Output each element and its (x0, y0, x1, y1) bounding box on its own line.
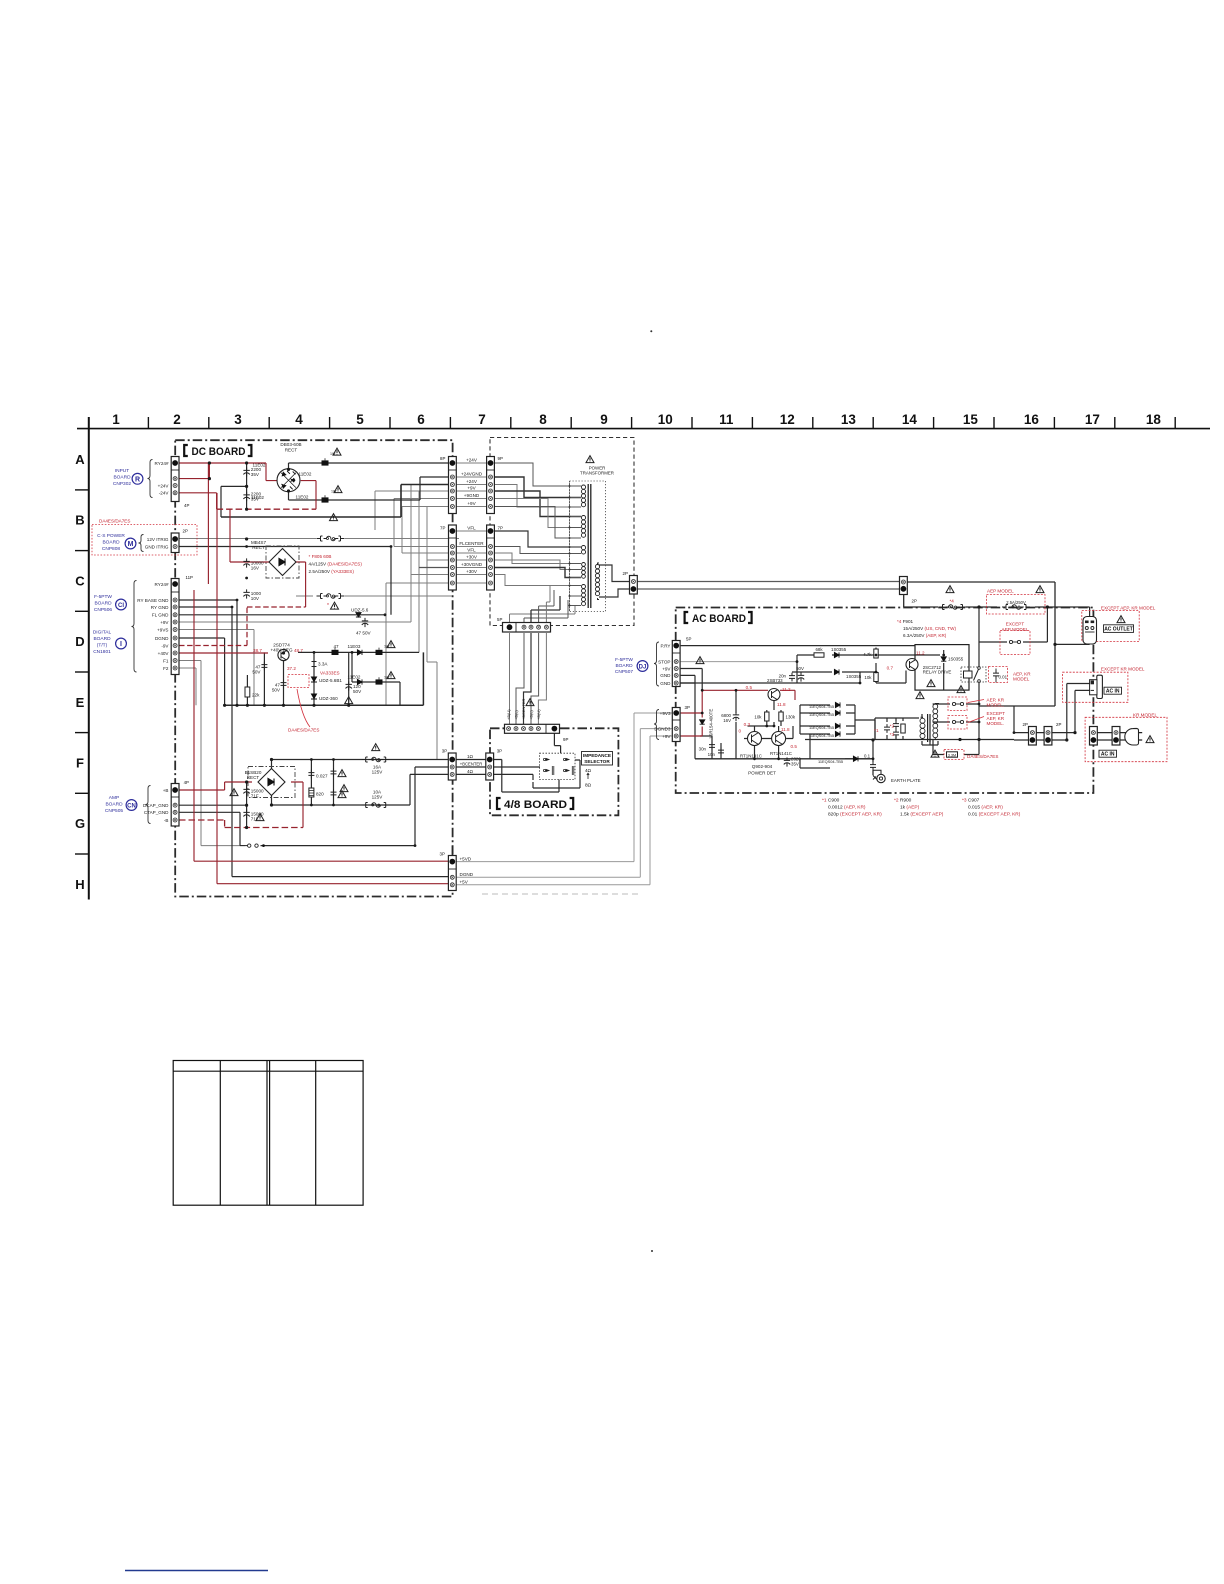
wire 5P to 4/8 drop 4 (531, 633, 539, 725)
warning triangle powerdet (696, 657, 704, 664)
blue DIGITAL BOARD label (93, 630, 112, 656)
warning triangle B center (330, 514, 338, 521)
except AEP model red box (1000, 631, 1030, 655)
wire +9GND stub (394, 499, 449, 547)
red dotted box 3.3M (944, 750, 964, 760)
wire 4/8 right row3 (494, 774, 533, 780)
svg-text:DA4ES/DA7ES: DA4ES/DA7ES (288, 728, 319, 733)
transformer dotted tap line (569, 481, 571, 611)
wire Q902 links (744, 701, 793, 759)
AC board title (685, 612, 752, 625)
svg-text:7P: 7P (440, 526, 445, 531)
svg-text:CI: CI (118, 603, 124, 609)
wire 5P riser 1 (510, 606, 576, 632)
circled DJ (637, 661, 648, 672)
svg-text:3.3A: 3.3A (318, 662, 328, 667)
svg-text:8: 8 (539, 412, 547, 427)
wire staircase +30V (494, 560, 581, 570)
svg-text:INPUT: INPUT (115, 468, 129, 474)
svg-text:10k: 10k (754, 715, 762, 720)
svg-text:DA4ES/DA7ES: DA4ES/DA7ES (967, 754, 998, 759)
wire 5P to 4/8 drop 5 (538, 633, 546, 725)
wire riser x427 (427, 507, 437, 760)
capacitor 15000 b (243, 809, 249, 818)
connector 2P a (1029, 727, 1037, 746)
svg-text:FLCENTER: FLCENTER (459, 541, 484, 546)
brace AC 3P (654, 710, 659, 740)
svg-text:F2: F2 (163, 666, 169, 671)
svg-text:4A/125V (DA4ES/DA7ES): 4A/125V (DA4ES/DA7ES) (309, 562, 363, 567)
svg-text:DGND: DGND (155, 636, 169, 641)
svg-text:IMPEDANCE: IMPEDANCE (583, 753, 611, 758)
transistor 2SC2712 (906, 659, 918, 671)
wire AC IN prongs (1067, 684, 1090, 691)
svg-text:7: 7 (478, 412, 486, 427)
capacitor 2200/35V a (243, 467, 249, 476)
svg-text:71F: 71F (251, 817, 259, 822)
fusible resistor A bottom (322, 495, 329, 502)
svg-text:RY GND: RY GND (151, 605, 169, 610)
wire snubber rail drops (875, 718, 903, 740)
svg-text:2.5A/250V: 2.5A/250V (1006, 600, 1026, 605)
wire bridge2 out red (291, 782, 303, 828)
warning triangle AEP (1036, 586, 1044, 593)
wire AC +9V3 red (681, 690, 703, 736)
svg-text:5P: 5P (686, 637, 691, 642)
svg-text:8Ω: 8Ω (585, 783, 592, 788)
svg-text:F-5PTW: F-5PTW (615, 657, 633, 663)
svg-text:RECT: RECT (285, 448, 298, 453)
wire transformer drop left (922, 740, 938, 746)
svg-text:11: 11 (719, 412, 734, 427)
diode bottom 11EQS04 (853, 756, 858, 761)
circled R (132, 473, 143, 484)
svg-text:RY24#: RY24# (155, 582, 169, 587)
svg-text:+9V: +9V (467, 485, 476, 490)
connector 2P transformer primary (630, 576, 638, 595)
svg-text:68k: 68k (815, 647, 823, 652)
svg-text:11EQS04-TB5: 11EQS04-TB5 (818, 759, 843, 764)
svg-text:CNP507: CNP507 (615, 669, 633, 675)
connector 7P left column B (449, 525, 457, 590)
svg-text:*4: *4 (950, 599, 955, 604)
svg-text:9P: 9P (563, 737, 568, 742)
svg-text:22k: 22k (252, 693, 260, 698)
wire 2P left top link (1014, 706, 1029, 733)
wire zener branch (313, 652, 315, 705)
resistor 3.3M (947, 752, 958, 757)
warning triangle F b (256, 814, 264, 821)
connector 3P AC (672, 708, 680, 742)
warning triangle fuse2 (340, 785, 348, 792)
wire outlet link (1054, 607, 1089, 644)
capacitor 6800 16V (733, 712, 739, 721)
svg-text:MODEL: MODEL (1013, 677, 1030, 682)
svg-text:BOARD: BOARD (615, 663, 633, 669)
wire -9V dashed (179, 607, 306, 646)
wire AC 2SB733 feed red (702, 690, 795, 700)
AC transformer core (928, 714, 930, 742)
svg-text:47 50V: 47 50V (356, 631, 371, 636)
blue CS POWER BOARD label (97, 533, 125, 552)
capacitor 0.1 (870, 762, 876, 771)
transformer core (588, 484, 591, 608)
wire AC top cluster row2 (792, 648, 876, 673)
svg-text:FL GND: FL GND (152, 613, 169, 618)
svg-text:CN1801: CN1801 (93, 649, 111, 655)
table header line (173, 1070, 363, 1072)
svg-text:DA4ES/DA7ES: DA4ES/DA7ES (99, 519, 130, 524)
svg-text:0.5: 0.5 (746, 685, 753, 690)
svg-text:+40V REG: +40V REG (270, 647, 293, 652)
connector CNP302 4P (171, 457, 179, 502)
svg-text:F: F (76, 756, 84, 771)
red DA4ES pointer curve (297, 689, 310, 727)
wire F2 (179, 668, 196, 705)
connector port labels (183, 456, 1062, 857)
svg-text:RECT: RECT (252, 545, 265, 550)
wire powerdet red feed row (735, 690, 737, 759)
svg-text:STOP: STOP (658, 659, 670, 664)
wire 2P to AC 2P upper (637, 581, 899, 583)
capacitor 0.01 (993, 670, 999, 679)
svg-text:3P: 3P (497, 749, 502, 754)
svg-text:F-5PTW: F-5PTW (94, 594, 112, 600)
svg-text:11EQS04-TB5: 11EQS04-TB5 (809, 725, 834, 730)
svg-text:EXCEPT KR MODEL: EXCEPT KR MODEL (1101, 667, 1145, 672)
svg-text:0.7: 0.7 (887, 666, 894, 671)
wire staircase VFL2 (494, 553, 581, 564)
svg-text:+9GND: +9GND (464, 493, 480, 498)
fuse F901 (939, 605, 967, 610)
svg-text:RY24#: RY24# (155, 461, 169, 466)
svg-text:RT1N141C: RT1N141C (770, 751, 792, 756)
wire gnd elbow A (221, 486, 247, 517)
wire RY24# red (179, 463, 277, 481)
warning triangle fuse1 (372, 744, 380, 751)
svg-text:4Ω: 4Ω (585, 768, 592, 773)
wire bridge1 plus out (289, 463, 449, 469)
svg-text:2P: 2P (912, 599, 917, 604)
svg-text:+B(U): +B(U) (536, 709, 541, 720)
capacitor 10000/16V (243, 558, 249, 567)
wire 4/8 pin6 drop (554, 731, 560, 753)
svg-text:+B(L): +B(L) (514, 709, 519, 720)
net labels column A (459, 457, 484, 574)
svg-text:DB03-60B: DB03-60B (280, 442, 301, 447)
svg-text:11.2: 11.2 (916, 651, 925, 656)
transformer secondary coils (581, 485, 585, 606)
connector CNP506 CN1801 11P (171, 579, 179, 675)
svg-text:*1: *1 (874, 728, 879, 733)
svg-text:11E03: 11E03 (348, 644, 361, 649)
fusible resistor A top (322, 458, 329, 465)
svg-text:38.7: 38.7 (253, 648, 262, 653)
svg-text:18: 18 (1146, 412, 1162, 427)
svg-text:RT1N141C: RT1N141C (740, 754, 762, 759)
svg-text:+9V: +9V (160, 620, 169, 625)
diode 11E03 (357, 650, 362, 655)
svg-text:48.7: 48.7 (294, 648, 303, 653)
wire +9VS (179, 630, 254, 706)
wire 2P to AC 2P lower (637, 588, 899, 590)
DC board title (184, 445, 251, 458)
wire MB4S7 feed (230, 509, 306, 607)
svg-text:0.3: 0.3 (744, 722, 751, 727)
capacitor 15000 a (243, 786, 249, 795)
warning triangle snubber (916, 692, 924, 699)
capacitor 2320 (784, 757, 790, 766)
AEP model red box (987, 595, 1046, 615)
connector 7P right column B (487, 525, 495, 590)
diode 1S0355 a (834, 652, 839, 657)
svg-text:30n: 30n (699, 747, 707, 752)
svg-text:11E02: 11E02 (348, 675, 361, 680)
faint dashed line under boards (482, 893, 640, 895)
wire riser x411 (410, 485, 412, 623)
connector 8P left column A (449, 457, 457, 514)
svg-text:3: 3 (234, 412, 242, 427)
svg-text:125V: 125V (372, 770, 384, 775)
brace AC 5P (654, 642, 659, 686)
wire red riser left long (194, 590, 448, 861)
bridge B1SB20 diamond (258, 769, 285, 796)
connector CNP507 5P AC (672, 641, 680, 687)
svg-text:EXCEPT AEP, KR MODEL: EXCEPT AEP, KR MODEL (1101, 606, 1156, 611)
selector contacts (543, 758, 573, 775)
wire transformer primary to 2P (599, 565, 630, 597)
wire 4/8 selector out (533, 760, 580, 788)
svg-text:11.2: 11.2 (782, 687, 791, 692)
wire GND ITRIG (179, 547, 391, 615)
wire 2P gap links (1036, 684, 1112, 741)
svg-text:CNP302: CNP302 (113, 481, 131, 487)
jumper except AEP KR (952, 720, 963, 723)
resistor 820 (309, 788, 314, 797)
transformer primary coil (595, 563, 599, 600)
relay coil (964, 671, 973, 678)
wire +5V to AC board riser (456, 736, 673, 885)
capacitor F col2 a (331, 768, 337, 777)
svg-text:4.7k: 4.7k (863, 652, 872, 657)
brace 11P tall (132, 581, 137, 673)
bridge MB4S7 dash box (266, 546, 299, 578)
warning triangle F d (338, 791, 346, 798)
wire earthline (800, 759, 830, 768)
AC red annotations (738, 589, 1157, 760)
svg-text:POWER DET: POWER DET (748, 771, 776, 776)
capacitor C900 (884, 724, 890, 733)
svg-text:0.01: 0.01 (999, 675, 1008, 680)
warning triangle 3.3M (931, 750, 939, 757)
wire DGND row (179, 638, 225, 705)
svg-text:1W: 1W (331, 490, 337, 494)
svg-text:GND: GND (660, 681, 671, 686)
blue AMP BOARD label (105, 795, 123, 814)
switch contacts G (240, 844, 265, 847)
svg-text:3.3M: 3.3M (948, 753, 956, 757)
capacitor 47 50V left (261, 662, 267, 671)
capacitor 120 50V (346, 681, 352, 690)
svg-text:RY BASE GND: RY BASE GND (137, 598, 169, 603)
svg-text:1SR154-400TE: 1SR154-400TE (709, 709, 714, 739)
wire 5P to 4/8 drop 1 (509, 633, 511, 725)
jumper AEP KR (952, 702, 963, 705)
wire cap column A (246, 463, 248, 509)
wire -24V red loop (179, 481, 316, 510)
wire 4/8 right row2 (494, 766, 540, 768)
warning triangle E (345, 697, 353, 704)
svg-text:GND: GND (660, 673, 671, 678)
fusible resistor 47 (332, 648, 339, 655)
svg-text:13: 13 (841, 412, 857, 427)
AC outlet red box (1082, 611, 1139, 642)
svg-text:6: 6 (417, 412, 425, 427)
column numbers (112, 412, 1161, 427)
svg-text:DJ: DJ (639, 665, 647, 671)
svg-text:130k: 130k (786, 715, 796, 720)
transformer inner dotted box (570, 481, 606, 612)
wire +9V row D (179, 621, 411, 623)
connector CNP808 2P (171, 533, 179, 553)
wire staircase 6 (494, 507, 581, 539)
wire DGND to AC board riser (456, 729, 673, 878)
wire 4/8 left pair rows (456, 760, 486, 775)
svg-text:8P: 8P (440, 456, 445, 461)
svg-text:0.5: 0.5 (791, 744, 798, 749)
wire powerdet bottom (695, 758, 873, 760)
svg-text:+24VGND: +24VGND (461, 471, 483, 476)
wire bottom diode (845, 758, 873, 760)
svg-text:1k (AEP): 1k (AEP) (900, 805, 920, 811)
svg-text:35V: 35V (791, 762, 799, 767)
footer blue rule (125, 1570, 268, 1572)
svg-text:*3: *3 (890, 732, 895, 737)
fuse 2.5A 250V (1002, 605, 1030, 610)
svg-text:+B: +B (163, 788, 169, 793)
svg-text:820: 820 (316, 792, 324, 797)
svg-text:*3 C907: *3 C907 (962, 798, 980, 804)
wire jumper row1 (939, 703, 979, 705)
wire staircase VFL (494, 531, 581, 547)
svg-text:2P: 2P (1056, 722, 1061, 727)
svg-text:B: B (75, 513, 84, 528)
wire 5P riser 4 (539, 590, 554, 632)
wire 5P riser 2 (524, 600, 568, 632)
wire 3P stub (451, 846, 453, 856)
wire AC top cluster row1 (797, 655, 940, 683)
relay dotted box (961, 667, 986, 682)
wire FL GND (179, 614, 385, 616)
AC small part labels (699, 600, 1026, 783)
svg-text:C: C (75, 573, 85, 588)
svg-text:(T/T): (T/T) (97, 643, 108, 649)
svg-text:15A/250V (US, CND, TW): 15A/250V (US, CND, TW) (903, 626, 956, 631)
wire connector gap +24V row (456, 463, 486, 507)
svg-text:0.1: 0.1 (864, 754, 871, 759)
svg-text:4P: 4P (184, 780, 189, 785)
warning triangle D right (387, 641, 395, 648)
diode 11E02 row2 (357, 679, 362, 684)
svg-text:VA333ES: VA333ES (320, 671, 340, 676)
svg-text:1S0355: 1S0355 (948, 657, 964, 662)
resistor 10k AC (874, 673, 878, 682)
fuse ITRIG (317, 536, 345, 541)
svg-text:P.RY: P.RY (660, 643, 670, 648)
circled M (125, 538, 136, 549)
fusible resistor D row2 (376, 677, 383, 684)
wire connector gap VFL rows (456, 531, 486, 583)
svg-text:R: R (135, 476, 140, 483)
svg-text:+B(L): +B(L) (529, 709, 534, 720)
warning triangle C (331, 602, 339, 609)
wire +9V pin to red rail (681, 669, 703, 691)
wire +30V2 left (411, 574, 449, 576)
connector 9P right column A (487, 457, 495, 514)
svg-text:* F805 60B: * F805 60B (309, 554, 332, 559)
svg-text:UDZ-5.6: UDZ-5.6 (351, 608, 369, 613)
svg-text:DIGITAL: DIGITAL (93, 630, 112, 636)
wire staircase 3 (494, 485, 581, 508)
svg-text:BOARD: BOARD (105, 802, 123, 808)
svg-text:125V: 125V (372, 795, 384, 800)
wire AC top cluster gnd (681, 672, 860, 683)
capacitor 0.027 (308, 770, 314, 779)
wire cluster drop (809, 734, 811, 759)
warning triangle A top (333, 448, 341, 455)
svg-text:4P: 4P (184, 503, 189, 508)
red dotted box AEP KR cap (989, 667, 1008, 683)
red dotted box CNP808 (92, 525, 197, 556)
relay contact (974, 668, 980, 681)
svg-text:+BCENTER: +BCENTER (460, 762, 482, 767)
svg-text:16V: 16V (723, 718, 731, 723)
svg-text:E: E (76, 695, 85, 710)
except KR red box (1063, 672, 1128, 702)
svg-text:D: D (75, 634, 84, 649)
svg-text:AEP MODEL: AEP MODEL (1002, 627, 1029, 632)
wire FLCENTER left (394, 546, 449, 548)
wire VFL2 left (402, 552, 449, 554)
wire AC STOP row (681, 661, 797, 663)
connector 6pin horizontal 4/8 (505, 724, 560, 733)
connector 2P c KR (1090, 727, 1098, 746)
svg-text:CNP808: CNP808 (102, 546, 120, 552)
wire AC main top (904, 589, 1090, 607)
row ticks (75, 490, 89, 854)
wire bridge1 minus out (289, 477, 449, 500)
brace CNP808 (139, 535, 144, 552)
warning triangle 4/8 (526, 699, 534, 706)
svg-text:VFL: VFL (467, 525, 476, 530)
svg-text:12V ITRIG: 12V ITRIG (147, 537, 169, 542)
svg-text:17: 17 (1085, 412, 1100, 427)
AC IN 3prong symbol (1090, 675, 1103, 698)
svg-text:DC BOARD: DC BOARD (192, 446, 246, 458)
earth plate symbol (873, 770, 885, 782)
svg-text:50V: 50V (353, 689, 362, 694)
svg-text:11.8: 11.8 (777, 702, 786, 707)
AC IN label box (1104, 687, 1122, 694)
wire staircase 5 (494, 499, 581, 528)
warning red star C (327, 603, 329, 609)
capacitor 20n (789, 673, 795, 682)
svg-text:4/8 BOARD: 4/8 BOARD (504, 799, 567, 811)
AC outlet symbol (1083, 617, 1097, 645)
svg-text:1Ω: 1Ω (467, 754, 474, 759)
svg-text:1W: 1W (330, 452, 336, 456)
connector 2P b (1044, 727, 1052, 746)
